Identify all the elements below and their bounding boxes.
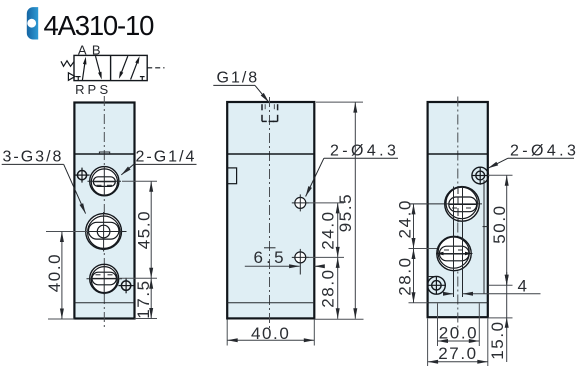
svg-text:50.0: 50.0 <box>490 204 509 244</box>
svg-text:2-Ø4.3: 2-Ø4.3 <box>330 142 399 159</box>
svg-text:6.5: 6.5 <box>254 248 287 267</box>
svg-text:2-G1/4: 2-G1/4 <box>136 149 197 166</box>
svg-text:17.5: 17.5 <box>134 279 153 319</box>
svg-text:20.0: 20.0 <box>439 324 479 343</box>
svg-text:R: R <box>75 82 84 97</box>
svg-text:S: S <box>99 82 108 97</box>
svg-text:28.0: 28.0 <box>318 268 337 308</box>
svg-text:45.0: 45.0 <box>134 210 153 250</box>
svg-text:28.0: 28.0 <box>395 256 414 296</box>
svg-text:3-G3/8: 3-G3/8 <box>3 149 64 166</box>
svg-text:27.0: 27.0 <box>438 344 478 363</box>
svg-text:24.0: 24.0 <box>395 199 414 239</box>
svg-text:24.0: 24.0 <box>318 210 337 250</box>
svg-text:2-Ø4.3: 2-Ø4.3 <box>510 142 579 159</box>
svg-text:40.0: 40.0 <box>251 324 291 343</box>
svg-text:A: A <box>78 43 87 58</box>
svg-text:4: 4 <box>518 276 529 295</box>
svg-text:4A310-10: 4A310-10 <box>44 10 155 41</box>
svg-text:15.0: 15.0 <box>488 320 507 360</box>
svg-text:G1/8: G1/8 <box>217 69 260 86</box>
svg-text:P: P <box>87 82 96 97</box>
svg-text:B: B <box>92 43 101 58</box>
svg-text:40.0: 40.0 <box>45 253 64 293</box>
